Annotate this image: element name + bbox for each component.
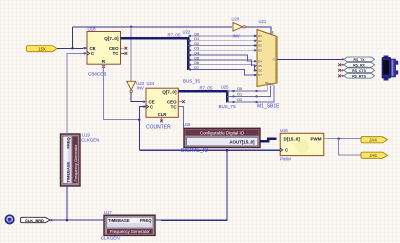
- svg-text:S2: S2: [271, 83, 275, 87]
- svg-text:O0: O0: [237, 87, 242, 91]
- bus U24.Q to splitter U25: [178, 91, 227, 102]
- svg-text:O3: O3: [194, 47, 199, 51]
- svg-text:U17: U17: [104, 210, 112, 215]
- no-ERC x on U18.CEO: [125, 47, 128, 50]
- svg-text:D[15..0]: D[15..0]: [284, 136, 301, 141]
- svg-text:FREQ: FREQ: [65, 137, 70, 148]
- svg-text:Q[7..0]: Q[7..0]: [162, 89, 177, 94]
- sheet symbol U19 CLKGEN (vertical): [61, 134, 81, 186]
- svg-text:Frequency Generator: Frequency Generator: [73, 144, 78, 182]
- svg-text:FREQ: FREQ: [140, 218, 152, 223]
- wire vertical up from junction: [72, 27, 74, 48]
- mux pin dots: [254, 35, 256, 76]
- wire horizontal top net to INV U20 input: [73, 26, 233, 28]
- node junction at (227,150.2): [226, 149, 229, 152]
- wire vertical down to INV U23 input: [130, 27, 132, 82]
- svg-text:D5: D5: [258, 64, 262, 68]
- pin dots U24: [143, 101, 145, 108]
- svg-text:INV: INV: [233, 34, 240, 39]
- port flag 15X: [27, 46, 58, 52]
- svg-text:U21: U21: [259, 19, 267, 24]
- svg-text:CE: CE: [90, 46, 96, 51]
- svg-text:U20: U20: [232, 17, 240, 22]
- wire O1: [188, 40, 254, 42]
- wire junction down to U17.FREQ: [161, 150, 227, 220]
- svg-text:D7: D7: [258, 73, 262, 77]
- svg-text:RS_RTS: RS_RTS: [352, 74, 366, 78]
- svg-text:JA6: JA6: [369, 153, 377, 158]
- mux input pin stubs: [254, 36, 257, 75]
- svg-text:CLK_BRD: CLK_BRD: [25, 218, 44, 223]
- svg-text:RS_RX: RS_RX: [353, 63, 365, 67]
- svg-text:AOUT[15..0]: AOUT[15..0]: [229, 140, 255, 145]
- svg-text:CLKGEN: CLKGEN: [81, 137, 99, 142]
- no-ERC x on U24.CLR: [160, 120, 163, 123]
- svg-text:D6: D6: [258, 69, 262, 73]
- wire PWM output: [327, 138, 361, 140]
- bus splitter U22 taps O0-O7: [188, 36, 257, 75]
- svg-text:Frequency Generator: Frequency Generator: [110, 229, 150, 234]
- pin labels O0..O7 of U22: [194, 32, 199, 70]
- pin labels O0 O1 O2 of U25: [237, 87, 242, 102]
- node junction at (338.7,138.7): [338, 138, 340, 140]
- no-ERC x on RS_RTS: [338, 74, 341, 77]
- svg-text:U16: U16: [280, 128, 288, 133]
- svg-text:CLR: CLR: [158, 112, 167, 117]
- port CLK_BRD: [21, 217, 50, 223]
- no-ERC x on U24.CEO: [182, 100, 185, 103]
- bus R7..0S from U18.Q to splitter U22: [121, 38, 189, 70]
- svg-text:D3: D3: [258, 48, 262, 52]
- svg-text:15X: 15X: [38, 46, 46, 51]
- wire U19 bottom to CLK_BRD net: [66, 186, 68, 220]
- counter U24 second stage: [143, 88, 182, 120]
- svg-text:D0: D0: [258, 34, 262, 38]
- svg-text:JA4: JA4: [369, 137, 377, 142]
- svg-text:U25: U25: [221, 85, 229, 90]
- sheet symbol U15 Configurable Digital IO: [184, 128, 260, 147]
- wire CLK_BRD to U17: [50, 219, 101, 221]
- svg-text:TC: TC: [113, 51, 120, 56]
- port flag JA4: [361, 137, 388, 143]
- inverter U20: [233, 23, 245, 31]
- svg-text:PWM: PWM: [280, 157, 291, 162]
- wire select S0: [227, 85, 267, 91]
- pin dots on splitter taps: [189, 35, 191, 70]
- wire O2: [188, 45, 254, 47]
- wire net CE: flag to U18.CE: [57, 47, 87, 49]
- svg-text:O1: O1: [194, 37, 199, 41]
- pin dots on RS port stubs: [342, 59, 344, 77]
- svg-text:DIGITAL_IO: DIGITAL_IO: [181, 148, 208, 154]
- mux output wire to RS_TX: [277, 58, 344, 60]
- svg-text:O6: O6: [194, 61, 199, 65]
- counter U18 CB8CEB: [84, 32, 125, 69]
- wire O5: [188, 60, 254, 66]
- wire O3: [188, 49, 254, 51]
- svg-text:RS_TX: RS_TX: [353, 58, 365, 62]
- wire down-elbow to JA6: [339, 139, 361, 156]
- svg-text:U18: U18: [88, 26, 97, 31]
- node bus corner dot: [186, 37, 189, 40]
- node junction at (139.3,119.7): [138, 119, 140, 121]
- svg-text:O1: O1: [237, 93, 242, 97]
- wire DIGITAL_IO: [139, 149, 280, 151]
- sheet symbol U17 TIMEBASE/FREQ: [101, 215, 162, 235]
- svg-text:R7..0S: R7..0S: [200, 85, 213, 90]
- svg-text:R7..0S: R7..0S: [168, 33, 181, 38]
- node junction at (66.9,220.2): [66, 219, 68, 221]
- svg-text:D4: D4: [258, 59, 262, 63]
- wire select S2: [227, 86, 274, 102]
- wire net R: U18.R down and to vertical: [104, 64, 140, 120]
- svg-text:Q[7..0]: Q[7..0]: [104, 36, 119, 41]
- svg-text:U22: U22: [183, 30, 191, 35]
- component U16 PWM: [277, 133, 328, 155]
- svg-text:O7: O7: [194, 66, 199, 70]
- bus AOUT U15 to U16: [260, 139, 277, 142]
- svg-text:TIMEBASE: TIMEBASE: [65, 162, 70, 183]
- svg-text:U15: U15: [183, 122, 191, 127]
- node junction at (72.5,48.2): [71, 47, 73, 49]
- wire U23 output to U24.CE: [131, 92, 143, 101]
- wire O4: [188, 55, 254, 61]
- port RS_CTS: [341, 68, 375, 73]
- connector J1 DB9 icon: [382, 56, 398, 81]
- no-ERC x on RS_CTS: [338, 69, 341, 72]
- wire net C of U24 to DIGITAL_IO corner: [139, 107, 143, 151]
- mux pin names: [258, 34, 275, 87]
- pin dots U18: [84, 47, 86, 54]
- svg-text:RS_CTS: RS_CTS: [352, 69, 366, 73]
- wire O6: [188, 65, 257, 71]
- svg-text:O5: O5: [194, 56, 199, 60]
- svg-text:CEO: CEO: [109, 46, 119, 51]
- wire net C: U18.C left and down to U19 top: [67, 53, 84, 134]
- svg-text:O2: O2: [194, 42, 199, 46]
- pin dots U25 taps: [233, 90, 258, 103]
- mux U21 M1_SB1E: [257, 30, 277, 87]
- svg-text:U24: U24: [147, 81, 155, 86]
- port RS_RTS: [341, 74, 375, 79]
- wire O7: [188, 70, 254, 76]
- svg-text:TIMEBASE: TIMEBASE: [108, 218, 130, 223]
- svg-text:D2: D2: [258, 44, 262, 48]
- logo blue circle icon: [5, 215, 13, 223]
- svg-text:BUS_7S: BUS_7S: [219, 104, 236, 109]
- svg-text:CLKGEN: CLKGEN: [101, 236, 120, 241]
- svg-text:O0: O0: [194, 32, 199, 36]
- port RS_RX: [341, 63, 375, 68]
- no-ERC x on U18.R: [102, 65, 105, 68]
- wire U20 output to mux enable: [245, 27, 271, 35]
- inverter U23: [127, 81, 136, 92]
- wire U24.TC to sheet U15: [178, 107, 183, 129]
- port flag JA6: [361, 152, 388, 158]
- node junction at (131.2,26.8): [130, 26, 132, 28]
- svg-text:TC: TC: [171, 105, 178, 110]
- svg-text:O2: O2: [237, 98, 242, 102]
- svg-text:INV: INV: [137, 86, 144, 91]
- svg-text:Configurable Digital IO: Configurable Digital IO: [200, 131, 245, 136]
- no-ERC x on RS_RX: [338, 63, 341, 66]
- svg-text:D1: D1: [258, 39, 262, 43]
- svg-text:PWM: PWM: [311, 136, 322, 141]
- svg-text:M1_SB1E: M1_SB1E: [257, 103, 280, 109]
- svg-text:E: E: [272, 30, 274, 34]
- svg-text:O4: O4: [194, 52, 199, 56]
- port RS_TX: [344, 57, 375, 62]
- svg-text:COUNTER: COUNTER: [146, 124, 171, 130]
- pin dot CLK_BRD flag: [51, 219, 53, 221]
- no-ERC x on U18.TC: [125, 52, 128, 55]
- wire select S1: [227, 86, 271, 97]
- wire O0: [188, 35, 254, 37]
- svg-text:BUS_3S: BUS_3S: [183, 78, 200, 83]
